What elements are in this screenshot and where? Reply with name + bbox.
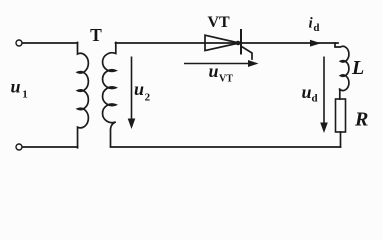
arrow ud [320, 57, 328, 134]
svg-text:u: u [302, 82, 312, 102]
resistor R body [336, 99, 346, 132]
resistor R bottom lead [340, 132, 342, 147]
inductor L [335, 43, 349, 99]
arrow uVT [184, 60, 259, 67]
svg-text:R: R [354, 109, 368, 131]
wire top-left [23, 42, 78, 44]
terminal top-left [16, 40, 22, 46]
svg-text:d: d [312, 92, 318, 104]
svg-text:u: u [134, 79, 144, 99]
svg-text:u: u [209, 61, 219, 81]
node A junction dot at thyristor anode [236, 41, 241, 46]
svg-text:VT: VT [219, 73, 233, 84]
svg-text:u: u [11, 76, 21, 96]
svg-text:2: 2 [145, 91, 151, 103]
thyristor VT gate [242, 47, 253, 60]
transformer T primary winding [78, 43, 89, 148]
arrow u2 [128, 57, 136, 130]
wire bottom-left [23, 146, 78, 148]
terminal bottom-left [16, 144, 22, 150]
arrow id current direction [310, 40, 321, 47]
svg-text:1: 1 [22, 89, 28, 101]
svg-text:T: T [90, 25, 102, 45]
wire secondary top [116, 42, 339, 44]
thyristor VT triangle [205, 35, 239, 50]
thyristor VT cathode bar [240, 30, 242, 54]
wire bottom [111, 146, 341, 148]
svg-text:d: d [313, 22, 319, 34]
svg-text:VT: VT [208, 14, 231, 31]
transformer T secondary winding [103, 43, 116, 147]
svg-text:L: L [351, 57, 364, 79]
